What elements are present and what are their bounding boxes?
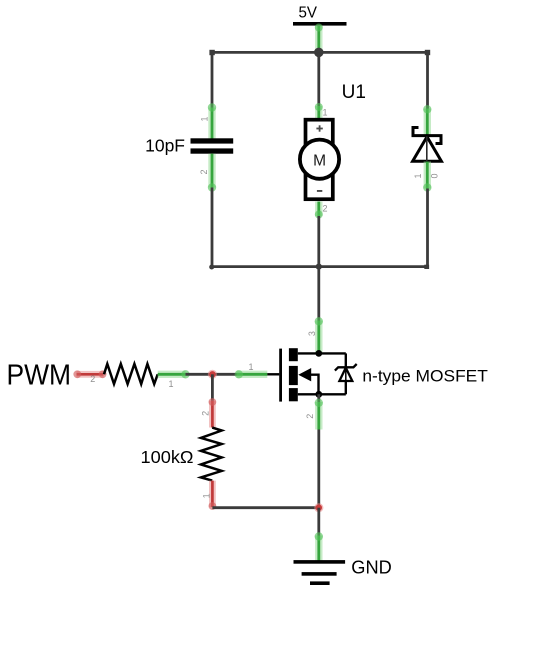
svg-text:3: 3: [307, 331, 317, 336]
svg-text:10pF: 10pF: [145, 135, 185, 155]
wire center column upper: [317, 52, 320, 106]
wire left column upper: [211, 52, 214, 107]
svg-text:1: 1: [248, 362, 253, 372]
motor U1 leg 2 (green): [315, 202, 323, 219]
resistor R2 zigzag: [201, 428, 222, 481]
svg-text:0: 0: [429, 173, 439, 178]
svg-text:1: 1: [168, 379, 173, 389]
wire resistor R1 to junction: [186, 373, 237, 376]
MOSFET drain leg 3 (green): [315, 317, 323, 352]
svg-text:1: 1: [323, 107, 328, 117]
ground symbol: [294, 560, 346, 585]
svg-text:U1: U1: [342, 82, 366, 103]
svg-text:GND: GND: [351, 557, 392, 578]
svg-text:100kΩ: 100kΩ: [141, 447, 194, 467]
svg-text:1: 1: [199, 116, 209, 121]
MOSFET source leg 2 (green): [315, 394, 323, 429]
svg-text:2: 2: [199, 169, 209, 174]
zener diode D1 anode leg (green): [423, 162, 431, 192]
svg-text:1: 1: [201, 493, 211, 498]
wire gate junction down: [211, 374, 214, 401]
bottom rail wire: [209, 265, 429, 270]
zener diode D1 cathode leg (green): [423, 105, 431, 135]
wire right column lower: [426, 189, 429, 267]
svg-text:2: 2: [90, 374, 95, 384]
wire bottom rail to MOSFET drain: [317, 267, 320, 321]
svg-text:2: 2: [323, 203, 328, 213]
motor U1 leg 1 (green): [315, 103, 323, 120]
svg-text:1: 1: [413, 173, 423, 178]
wire 5V to junction (green): [315, 24, 323, 53]
MOSFET gate leg 1 (green): [235, 370, 268, 378]
junction node bottom rail center: [316, 264, 322, 270]
motor U1 body: [300, 120, 339, 200]
svg-text:n-type MOSFET: n-type MOSFET: [362, 367, 488, 385]
MOSFET Q1: [267, 348, 356, 401]
svg-text:M: M: [313, 152, 326, 169]
wire junction to GND: [317, 508, 320, 536]
junction node gate/R2 (red): [208, 370, 217, 379]
junction node source/GND (red): [314, 503, 323, 512]
resistor R1 leg 1 (green): [158, 370, 190, 378]
capacitor C1 plates: [191, 138, 234, 153]
wire right column upper: [426, 52, 429, 108]
wire center to bottom rail: [317, 216, 320, 267]
junction node at 5V rail: [314, 48, 324, 58]
GND leg (green): [315, 532, 323, 561]
top rail wire: [209, 50, 430, 55]
wire R2 to source node: [212, 506, 318, 509]
resistor R1 zigzag: [104, 364, 158, 384]
wire PWM to resistor R1 (red): [73, 370, 106, 378]
zener diode D1: [413, 128, 442, 162]
wire source to bottom junction: [317, 430, 320, 508]
resistor R2 leg 1 (red): [209, 481, 217, 510]
resistor R2 leg 2 (red): [209, 398, 217, 427]
svg-text:2: 2: [305, 414, 315, 419]
capacitor C1 leg 1 (green): [208, 103, 216, 138]
svg-text:2: 2: [201, 411, 211, 416]
capacitor C1 leg 2 (green): [208, 154, 216, 192]
svg-text:PWM: PWM: [7, 360, 72, 392]
wire left column lower: [211, 188, 214, 267]
svg-text:5V: 5V: [298, 5, 317, 22]
power symbol 5V bar: [293, 22, 347, 26]
